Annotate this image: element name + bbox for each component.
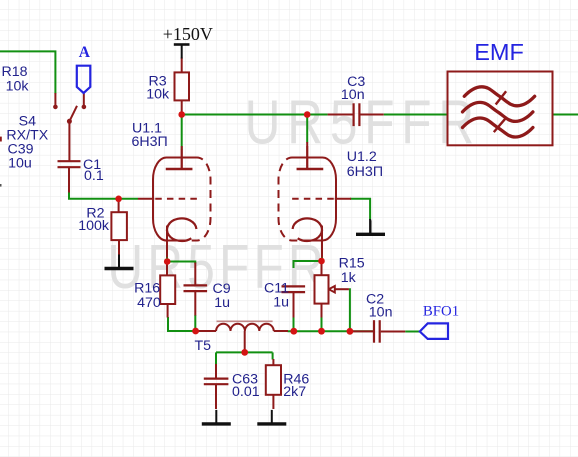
svg-text:1k: 1k [341,270,357,286]
svg-text:10n: 10n [369,304,393,320]
svg-text:BFO1: BFO1 [423,304,459,320]
svg-text:10k: 10k [146,87,170,103]
svg-text:U1.2: U1.2 [347,149,377,165]
svg-text:T5: T5 [195,338,212,354]
svg-text:1u: 1u [214,295,230,311]
svg-text:6Н3П: 6Н3П [347,164,383,180]
svg-text:100k: 100k [78,218,110,234]
svg-text:10u: 10u [8,155,32,171]
svg-text:10k: 10k [6,79,30,95]
svg-text:EMF: EMF [474,39,524,65]
svg-text:2k7: 2k7 [283,384,306,400]
svg-text:0.1: 0.1 [84,168,104,184]
svg-text:10n: 10n [341,87,365,103]
svg-text:1u: 1u [273,295,289,311]
svg-text:+150V: +150V [163,24,213,44]
svg-text:470: 470 [137,295,161,311]
svg-text:A: A [79,44,91,61]
svg-text:6Н3П: 6Н3П [132,134,168,150]
svg-text:0.01: 0.01 [232,384,260,400]
